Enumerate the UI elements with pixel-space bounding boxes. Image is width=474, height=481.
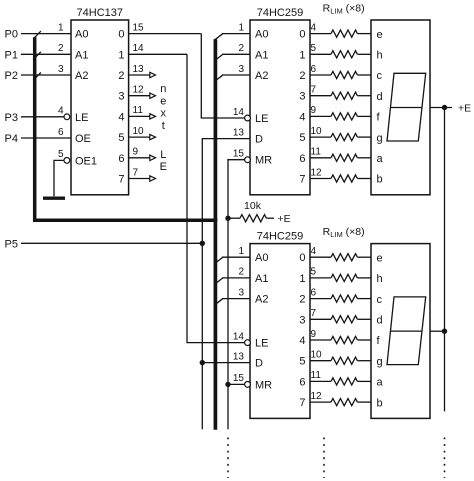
svg-text:12: 12 [133, 85, 145, 96]
svg-text:MR: MR [255, 379, 272, 391]
svg-text:9: 9 [133, 147, 139, 158]
svg-text:4: 4 [118, 111, 124, 123]
svg-text:h: h [377, 50, 383, 62]
svg-text:P4: P4 [5, 133, 18, 145]
svg-text:13: 13 [233, 351, 245, 362]
svg-text:15: 15 [233, 149, 245, 160]
svg-text:+E: +E [458, 102, 471, 114]
svg-text:4: 4 [299, 111, 305, 123]
svg-text:10k: 10k [244, 200, 262, 212]
svg-text:h: h [377, 273, 383, 285]
svg-text:3: 3 [118, 91, 124, 103]
svg-text:11: 11 [311, 370, 322, 381]
svg-text:b: b [377, 174, 383, 186]
svg-text:OE1: OE1 [75, 155, 97, 167]
svg-text:g: g [377, 132, 383, 144]
svg-text:A1: A1 [255, 273, 268, 285]
svg-text:1: 1 [58, 22, 64, 33]
svg-text:15: 15 [133, 22, 145, 33]
svg-text:7: 7 [299, 174, 305, 186]
svg-text:3: 3 [299, 91, 305, 103]
svg-text:74HC259: 74HC259 [257, 7, 303, 19]
svg-text:c: c [377, 70, 383, 82]
svg-text:c: c [377, 294, 383, 306]
svg-text:d: d [377, 315, 383, 327]
svg-text:2: 2 [299, 294, 305, 306]
svg-text:0: 0 [299, 29, 305, 41]
svg-text:A0: A0 [255, 252, 268, 264]
svg-text:14: 14 [233, 331, 245, 342]
svg-text:RLIM (×8): RLIM (×8) [323, 3, 365, 16]
svg-text:7: 7 [133, 167, 139, 178]
svg-text:D: D [255, 134, 263, 146]
svg-text:0: 0 [118, 29, 124, 41]
svg-text:g: g [377, 356, 383, 368]
svg-text:3: 3 [238, 287, 244, 298]
svg-text:15: 15 [233, 373, 245, 384]
svg-text:A0: A0 [75, 29, 88, 41]
svg-text:13: 13 [233, 127, 245, 138]
svg-text:4: 4 [299, 335, 305, 347]
svg-text:1: 1 [118, 49, 124, 61]
svg-text:P5: P5 [5, 238, 18, 250]
svg-text:P0: P0 [5, 29, 18, 41]
svg-text:5: 5 [299, 132, 305, 144]
svg-text:5: 5 [311, 43, 317, 54]
svg-text:10: 10 [311, 350, 323, 361]
svg-text:2: 2 [58, 43, 64, 54]
svg-text:1: 1 [238, 246, 244, 257]
svg-text:e: e [377, 252, 383, 264]
svg-text:0: 0 [299, 252, 305, 264]
svg-text:13: 13 [133, 64, 145, 75]
svg-text:3: 3 [58, 64, 64, 75]
svg-text:LE: LE [255, 338, 268, 350]
svg-text:12: 12 [311, 167, 323, 178]
svg-text:1: 1 [299, 49, 305, 61]
svg-text:A1: A1 [75, 49, 88, 61]
svg-text:9: 9 [311, 105, 317, 116]
svg-text:3: 3 [238, 64, 244, 75]
svg-text:b: b [377, 397, 383, 409]
svg-text:9: 9 [311, 329, 317, 340]
svg-text:14: 14 [233, 107, 245, 118]
svg-text:E: E [160, 161, 167, 173]
svg-text:2: 2 [238, 267, 244, 278]
svg-text:14: 14 [133, 43, 145, 54]
svg-text:6: 6 [118, 153, 124, 165]
svg-text:A0: A0 [255, 29, 268, 41]
svg-text:n: n [160, 83, 166, 95]
svg-text:P1: P1 [5, 49, 18, 61]
svg-text:5: 5 [311, 267, 317, 278]
svg-text:MR: MR [255, 155, 272, 167]
svg-text:a: a [377, 377, 384, 389]
svg-text:74HC259: 74HC259 [257, 230, 303, 242]
svg-text:2: 2 [299, 70, 305, 82]
svg-text:A2: A2 [255, 294, 268, 306]
svg-text:A2: A2 [75, 70, 88, 82]
svg-text:5: 5 [299, 356, 305, 368]
svg-text:OE: OE [75, 133, 91, 145]
svg-text:A1: A1 [255, 49, 268, 61]
svg-text:e: e [160, 95, 166, 107]
svg-text:P2: P2 [5, 70, 18, 82]
svg-text:e: e [377, 29, 383, 41]
svg-text:3: 3 [299, 314, 305, 326]
svg-text:4: 4 [58, 106, 64, 117]
svg-text:7: 7 [118, 174, 124, 186]
svg-text:RLIM (×8): RLIM (×8) [323, 226, 365, 239]
svg-text:11: 11 [133, 105, 144, 116]
svg-text:1: 1 [238, 22, 244, 33]
svg-text:4: 4 [311, 22, 317, 33]
svg-text:6: 6 [311, 287, 317, 298]
svg-text:D: D [255, 358, 263, 370]
svg-text:A2: A2 [255, 70, 268, 82]
svg-text:4: 4 [311, 246, 317, 257]
svg-text:2: 2 [118, 70, 124, 82]
svg-text:L: L [160, 149, 166, 161]
svg-text:6: 6 [299, 153, 305, 165]
svg-text:d: d [377, 91, 383, 103]
svg-text:5: 5 [58, 149, 64, 160]
svg-text:6: 6 [58, 127, 64, 138]
svg-text:10: 10 [133, 126, 145, 137]
svg-text:a: a [377, 153, 384, 165]
svg-text:7: 7 [299, 397, 305, 409]
svg-text:6: 6 [299, 376, 305, 388]
svg-text:5: 5 [118, 132, 124, 144]
svg-text:11: 11 [311, 147, 322, 158]
svg-text:x: x [161, 108, 167, 120]
svg-text:10: 10 [311, 126, 323, 137]
svg-text:2: 2 [238, 43, 244, 54]
svg-text:7: 7 [311, 85, 317, 96]
svg-text:12: 12 [311, 391, 323, 402]
svg-text:t: t [162, 120, 165, 132]
svg-text:LE: LE [75, 112, 88, 124]
svg-text:P3: P3 [5, 112, 18, 124]
svg-text:7: 7 [311, 308, 317, 319]
svg-text:LE: LE [255, 113, 268, 125]
svg-text:6: 6 [311, 64, 317, 75]
svg-text:74HC137: 74HC137 [77, 7, 123, 19]
svg-text:1: 1 [299, 273, 305, 285]
svg-text:+E: +E [278, 213, 291, 225]
